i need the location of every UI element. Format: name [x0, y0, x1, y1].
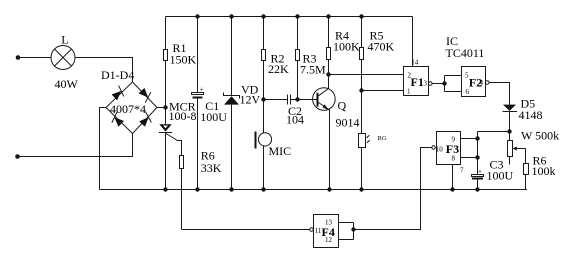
wire node to F3 input column: [478, 131, 510, 133]
junction dots on top bus: [195, 14, 363, 18]
resistor R6 33K (gate): [180, 149, 222, 230]
wire bridge right vertex to node DC+: [157, 107, 166, 109]
node C2/R3/base: [295, 97, 299, 101]
gate F3: [432, 132, 464, 175]
svg-text:14: 14: [411, 59, 419, 67]
junction dots on ground bus: [163, 187, 479, 191]
node pin9: [475, 136, 479, 140]
thyristor MCR 100-8: [159, 100, 197, 190]
svg-text:3: 3: [424, 80, 428, 88]
svg-text:100K: 100K: [333, 40, 360, 54]
svg-text:MIC: MIC: [269, 144, 292, 158]
svg-text:F1: F1: [411, 75, 424, 89]
svg-text:150K: 150K: [170, 53, 197, 67]
wire ground bus: [100, 189, 528, 191]
svg-text:+: +: [200, 86, 204, 94]
wire F3 out to F4 inputs: [354, 148, 432, 230]
svg-text:D1-D4: D1-D4: [101, 68, 134, 82]
svg-text:4007*4: 4007*4: [110, 102, 146, 116]
wire top bus (+V rail): [166, 16, 413, 18]
svg-text:L: L: [61, 33, 68, 47]
wire F3 pin8: [461, 157, 478, 159]
diode D3 (bottom-left arm): [109, 112, 125, 128]
svg-text:470K: 470K: [368, 40, 395, 54]
svg-text:22K: 22K: [268, 62, 289, 76]
photoresistor RG: [359, 134, 387, 190]
wire lamp to bridge top: [75, 58, 133, 83]
node D5/W/F3 inputs: [507, 129, 511, 133]
svg-text:10: 10: [436, 146, 444, 154]
diode D5 4148: [503, 97, 543, 132]
svg-text:4148: 4148: [519, 108, 543, 122]
zener VD 12V: [224, 17, 261, 190]
wire F3 pin9: [461, 138, 478, 140]
svg-text:+: +: [478, 167, 482, 175]
capacitor C3 100U: [472, 158, 514, 190]
transistor Q 9014: [313, 75, 360, 190]
svg-text:W 500k: W 500k: [521, 129, 559, 143]
IC label TC4011: [446, 34, 485, 60]
svg-text:Q: Q: [338, 99, 347, 113]
wire T1 to lamp: [18, 57, 51, 59]
wire node to F1 pin 2: [329, 74, 404, 76]
gate F4: [310, 215, 339, 248]
svg-text:12: 12: [325, 236, 333, 244]
wire base lead: [298, 99, 317, 101]
wire F2 out to D5: [489, 83, 509, 105]
svg-text:7.5M: 7.5M: [300, 63, 326, 77]
diode D4 (bottom-right arm): [138, 112, 154, 128]
terminal T1 (AC input top): [16, 55, 21, 60]
wire node to F1 pin 1: [362, 90, 404, 92]
svg-text:104: 104: [286, 113, 304, 127]
wire VDD to F1 pin 14: [412, 17, 414, 67]
gate F1: [404, 59, 433, 96]
wire gate line to F4 output: [182, 229, 310, 231]
potentiometer W 500k: [508, 129, 560, 165]
svg-text:100-8: 100-8: [169, 109, 197, 123]
svg-text:40W: 40W: [55, 77, 79, 91]
lamp L 40W: [51, 33, 79, 92]
diode D1 (top-left arm): [110, 86, 126, 102]
node pin8: [475, 155, 479, 159]
resistor R3 7.5M: [296, 17, 327, 100]
svg-text:RG: RG: [378, 135, 387, 142]
gate F2: [462, 67, 490, 97]
node R2/C2/MIC: [261, 97, 265, 101]
wire node to C2: [264, 99, 288, 101]
wire F3 input column: [477, 132, 479, 175]
resistor R1 150K: [164, 17, 197, 125]
node R5/RG/F1 pin1: [359, 88, 363, 92]
microphone MIC: [255, 132, 292, 190]
wire F4 pins 13/12 tied: [339, 223, 356, 240]
capacitor C2 104: [286, 95, 304, 127]
resistor R4 100K: [327, 17, 361, 75]
node DC+ junction: [163, 105, 167, 109]
svg-text:33K: 33K: [201, 161, 222, 175]
bridge rectifier D1-D4 frame: [101, 68, 157, 134]
terminal T2 (AC input bottom): [15, 154, 20, 159]
svg-text:9: 9: [452, 136, 456, 144]
svg-text:12V: 12V: [240, 92, 261, 106]
svg-text:9014: 9014: [336, 116, 360, 130]
capacitor C1 100U: [192, 17, 228, 190]
wire bridge left vertex to ground bus: [100, 108, 107, 190]
svg-text:100U: 100U: [487, 169, 514, 183]
svg-text:7: 7: [460, 167, 464, 175]
svg-text:TC4011: TC4011: [446, 46, 485, 60]
wire F1 out to F2 inputs: [432, 76, 461, 92]
svg-text:100k: 100k: [532, 164, 556, 178]
resistor R2 22K: [262, 17, 290, 100]
wire SCR gate: [166, 134, 182, 156]
svg-text:100U: 100U: [200, 110, 227, 124]
diode D2 (top-right arm): [137, 87, 153, 103]
svg-text:13: 13: [325, 219, 333, 227]
svg-text:4: 4: [480, 79, 484, 87]
resistor R6 100k: [524, 154, 556, 190]
svg-text:8: 8: [452, 155, 456, 163]
wire F3 pin7 to ground: [452, 165, 454, 190]
resistor R5 470K: [360, 17, 395, 134]
wire T2 to bridge bottom: [18, 134, 133, 157]
wire node to MIC: [263, 100, 265, 134]
node R4/collector/F1 pin2: [326, 72, 330, 76]
